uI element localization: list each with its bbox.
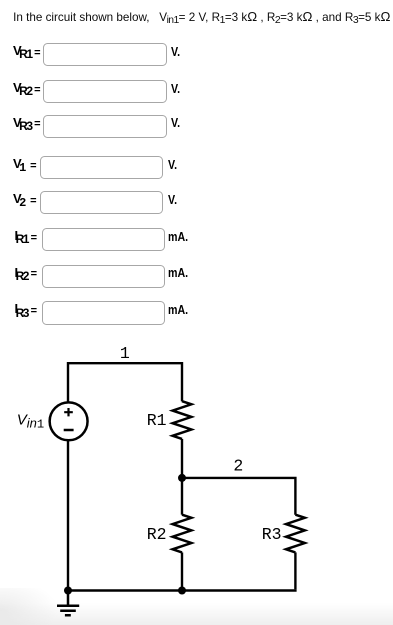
svg-text:2: 2 [233,456,243,475]
junction dot ground node [64,587,72,595]
wire: R3 bottom to bottom rail corner [294,552,296,589]
answer row V2 [0,191,1,215]
circuit schematic [0,340,393,625]
resistor R3 zigzag [286,515,305,553]
svg-text:R3: R3 [262,525,282,544]
bottom page gradient [0,603,393,625]
answer row VR2 [0,80,1,104]
problem statement [13,9,390,24]
answer row IR3 [0,301,1,325]
wire: R2 bottom to bottom rail [181,552,183,590]
svg-text:R2: R2 [147,525,167,544]
svg-text:Vin1: Vin1 [17,412,44,432]
junction dot node 2 [178,474,186,482]
answer row V1 [0,156,1,180]
wire: R1 bottom to node 2 junction [181,439,183,478]
resistor R1 zigzag [173,401,192,439]
wire: source bottom down to ground node [67,441,69,591]
wire: top loop from source top, node 1 rail, down to R1 top [68,363,182,402]
wire: bottom rail [67,589,297,591]
voltage source plus sign [64,408,73,416]
svg-text:R1: R1 [147,411,167,430]
answer row IR2 [0,265,1,289]
voltage source minus sign [64,429,74,432]
ground symbol [57,591,79,616]
junction dot R2 bottom [178,587,186,595]
node 2 rail wire over to R3 [182,478,295,515]
answer row VR1 [0,43,1,67]
resistor R2 zigzag [173,515,192,553]
voltage source Vin1 circle [50,402,88,440]
answer row VR3 [0,115,1,139]
svg-text:1: 1 [120,344,130,363]
wire: node 2 down to R2 top [181,478,183,515]
answer row IR1 [0,228,1,252]
